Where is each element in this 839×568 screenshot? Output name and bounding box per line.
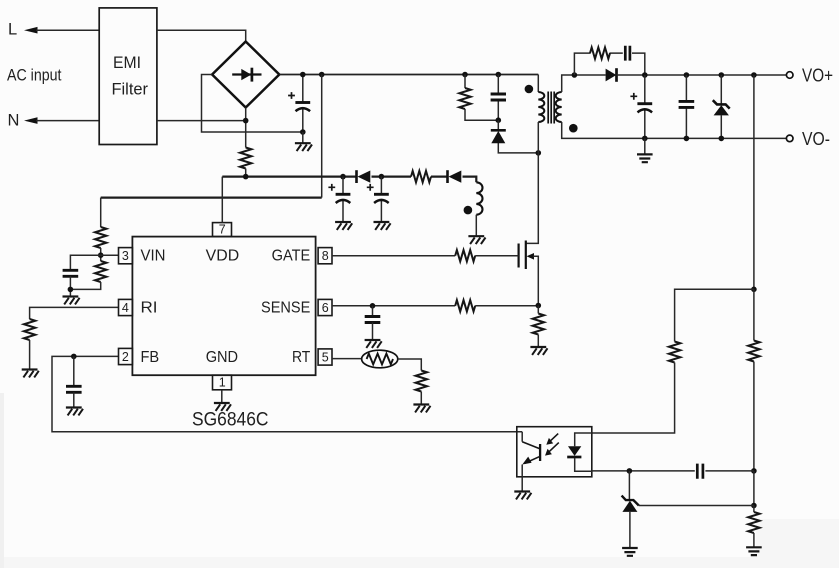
resistor VIN upper (95, 227, 106, 248)
junction divider split (751, 287, 757, 293)
startup resistor (240, 148, 251, 169)
wire primary bottom to MOSFET drain (526, 122, 539, 243)
arrow N (24, 117, 38, 124)
svg-text:AC input: AC input (7, 66, 62, 85)
bridge rectifier (212, 42, 279, 108)
svg-text:7: 7 (219, 223, 226, 237)
wire gate resistor to MOSFET gate (475, 255, 518, 257)
junction drain/clamp (536, 150, 542, 156)
svg-text:VO-: VO- (802, 129, 830, 149)
ground below C2 (335, 222, 352, 230)
VDD rail wire (222, 177, 476, 183)
wire secondary top (562, 75, 606, 92)
junction HV sense branch (319, 72, 325, 78)
junction sense filter cap (370, 303, 376, 309)
output electrolytic stems (644, 75, 646, 138)
resistor opto series (669, 342, 680, 363)
junction snubber RC bottom (496, 117, 502, 123)
snubber resistor stem (464, 75, 466, 89)
primary polarity dot (525, 85, 534, 94)
pin 4 box (119, 299, 133, 315)
aux polarity dot (464, 206, 473, 215)
pin 6 box (318, 299, 332, 315)
junction source/sense (536, 303, 542, 309)
ground below pin 1 (214, 403, 231, 411)
transformer secondary winding (556, 92, 562, 122)
junction ceramic cap top (684, 72, 690, 78)
junction secondary snubber branch (572, 72, 578, 78)
junction snubber R top (462, 72, 468, 78)
zener stems (720, 75, 722, 138)
junction VIN divider ground node (68, 287, 74, 293)
capacitor output ceramic (679, 101, 695, 107)
snubber cap stems (497, 75, 499, 121)
svg-text:3: 3 (122, 249, 129, 263)
svg-text:GATE: GATE (272, 247, 311, 264)
junction ref node (751, 503, 757, 509)
wire startup resistor to VDD rail (245, 169, 247, 177)
earth ground below output cap (637, 154, 653, 162)
thermistor NTC (362, 350, 398, 368)
IC U1 SG6846C body (132, 237, 315, 376)
aux winding (476, 182, 482, 214)
transformer primary winding (538, 92, 544, 122)
svg-text:VDD: VDD (206, 247, 240, 264)
svg-text:SENSE: SENSE (261, 300, 310, 317)
ground below VIN divider (63, 297, 80, 305)
svg-text:L: L (8, 20, 17, 38)
junction snubber C top (496, 72, 502, 78)
TL431 shunt regulator (622, 471, 639, 548)
capacitor VDD C2 (electrolytic) (336, 194, 351, 203)
wire divider lower stems (753, 506, 755, 548)
svg-text:RI: RI (141, 300, 158, 317)
wire EMI to bridge bottom (N side) (157, 120, 246, 122)
capacitor sense filter (365, 317, 381, 323)
wire N to EMI filter (36, 120, 99, 122)
pin 5 box (318, 349, 332, 365)
zener diode output (713, 100, 730, 115)
wire bridge right vertex to HV rail (279, 74, 538, 76)
svg-text:GND: GND (206, 349, 238, 366)
wire pin 5 RT to thermistor (332, 358, 362, 360)
wire pin 2 FB to opto (long) (52, 356, 522, 431)
diode D1 (points left) (357, 170, 371, 183)
wire divider mid (753, 471, 755, 506)
transformer core (548, 92, 554, 124)
resistor snubber (459, 88, 470, 109)
svg-text:SG6846C: SG6846C (192, 410, 269, 431)
pin 1 box (213, 375, 232, 390)
wire bridge bottom to startup resistor (245, 108, 247, 148)
wire RT resistor to ground (420, 392, 422, 405)
resistor RT (416, 371, 427, 392)
output snubber wires (574, 53, 644, 75)
wire sense resistor to ground (537, 306, 539, 348)
junction zener top (719, 72, 725, 78)
capacitor output snubber (625, 46, 630, 61)
resistor RI (24, 319, 35, 340)
wire pin 7 to VDD rail (221, 177, 223, 223)
wire secondary bottom (VO- rail) (562, 122, 787, 138)
ceramic cap stems (685, 75, 687, 138)
svg-text:VIN: VIN (141, 247, 166, 264)
wire sense resistor to source node (475, 305, 538, 307)
capacitor output (electrolytic) (637, 104, 652, 113)
optocoupler LED (567, 433, 592, 471)
wire sense cap to ground (372, 323, 374, 341)
resistor output snubber (590, 47, 610, 58)
feedback divider top wire (753, 75, 755, 289)
wire thermistor to RT resistor (398, 359, 422, 371)
pin 7 box (213, 223, 232, 237)
VDD cap2 stem (380, 177, 382, 222)
diode output rectifier (points right) (606, 68, 645, 82)
wire C1 bottom to ground (302, 132, 304, 143)
ground below aux winding (468, 236, 485, 244)
resistor sense series (455, 300, 475, 311)
diode D2 (points left) (448, 170, 462, 183)
optocoupler photon arrows (545, 434, 559, 456)
clamp diode stems (498, 120, 538, 153)
arrow L (24, 27, 38, 34)
wire divider right branch (753, 289, 755, 340)
resistor VDD series (411, 171, 431, 182)
pin 3 box (119, 248, 133, 264)
svg-text:EMI: EMI (113, 53, 141, 72)
ground below C1 (295, 143, 312, 151)
resistor current sense (533, 314, 544, 335)
ground below RI resistor (22, 370, 39, 378)
wire ref line (639, 505, 754, 507)
svg-text:N: N (8, 112, 20, 130)
svg-text:VO+: VO+ (802, 66, 833, 86)
VO+ terminal (786, 72, 793, 79)
bulk capacitor C1 stems (302, 75, 304, 133)
junction feedback branch top (751, 72, 757, 78)
wire HV sense line down-left to VIN divider (321, 75, 323, 198)
plus sign output cap (630, 93, 637, 100)
wire VIN node to filter cap (70, 255, 100, 270)
resistor divider upper (748, 341, 759, 362)
plus sign C1 (288, 92, 295, 99)
svg-text:2: 2 (122, 350, 129, 364)
plus sign C2 (328, 184, 335, 191)
svg-text:4: 4 (122, 301, 129, 315)
svg-text:Filter: Filter (112, 80, 149, 99)
pin 8 box (318, 248, 332, 264)
junction output cap top (642, 72, 648, 78)
junction C1 bottom (300, 129, 306, 135)
sense cap stem (372, 306, 374, 316)
wire aux to ground (475, 215, 477, 237)
junction C1 top (300, 72, 306, 78)
svg-text:5: 5 (322, 350, 329, 364)
wire pin 8 GATE to gate resistor (332, 255, 455, 257)
optocoupler phototransistor (522, 432, 540, 492)
MOSFET Q1 (519, 241, 539, 306)
capacitor VDD C3 (electrolytic) (374, 194, 389, 203)
wire LED cathode to TL431 (592, 470, 630, 472)
diode clamp (cathode up) (491, 130, 506, 143)
svg-text:RT: RT (292, 349, 311, 366)
wire FB cap to ground (73, 392, 75, 407)
svg-text:6: 6 (322, 301, 329, 315)
capacitor snubber (491, 94, 506, 100)
svg-text:1: 1 (219, 375, 226, 389)
wire pin 1 GND to ground (221, 390, 223, 403)
wire snubber R bottom (465, 109, 498, 120)
resistor divider lower (748, 512, 759, 533)
secondary polarity dot (569, 124, 578, 133)
ground below FB cap (66, 408, 83, 416)
wire VIN lower resistor to bottom (70, 282, 100, 289)
wire comp network (629, 470, 754, 472)
VDD cap1 stem (342, 177, 344, 222)
wire FB cap stem (73, 356, 75, 386)
plus sign C3 (367, 184, 374, 191)
junction VDD cap2 (379, 174, 385, 180)
EMI filter box (99, 8, 157, 145)
wire L to EMI filter (36, 29, 99, 31)
junction VIN node (98, 252, 104, 258)
ground below sense cap (365, 340, 382, 348)
wire divider left branch (675, 289, 754, 341)
VO+ rail (645, 74, 787, 76)
junction output cap bottom (642, 136, 648, 142)
VO- terminal (786, 135, 793, 142)
junction ceramic cap bottom (684, 136, 690, 142)
wire bridge left vertex to negative rail (202, 75, 303, 133)
junction startup/VDD (243, 174, 249, 180)
wire output cap to ground (644, 138, 646, 154)
junction TL431 cathode (627, 468, 633, 474)
optocoupler U2 box (517, 427, 592, 477)
wire pin 6 SENSE to sense resistor (332, 305, 455, 307)
svg-text:8: 8 (322, 249, 329, 263)
capacitor compensation (697, 464, 703, 479)
transformer primary wire (537, 75, 539, 93)
wire RI resistor to ground (29, 340, 31, 370)
junction zener bottom (719, 136, 725, 142)
junction N-line/bridge (243, 118, 249, 124)
wire cap to ground node (69, 276, 71, 295)
ground below C3 (374, 222, 391, 230)
earth ground below TL431 (622, 548, 638, 556)
resistor gate (455, 250, 475, 261)
ground below RT resistor (413, 405, 430, 413)
earth ground below divider (746, 547, 762, 555)
bulk capacitor C1 (electrolytic) (295, 103, 310, 112)
wire divider to cap node (753, 362, 755, 471)
wire VIN node to pin 3 (101, 254, 119, 256)
junction FB cap (71, 354, 77, 360)
pin 2 box (119, 348, 133, 364)
junction comp cap node (751, 468, 757, 474)
junction VDD cap1 (340, 174, 346, 180)
capacitor VIN filter (63, 270, 79, 276)
wire opto series resistor down-left to LED anode (592, 363, 675, 434)
ground below optocoupler (514, 492, 531, 500)
wire to VIN node (100, 248, 102, 261)
wire EMI to bridge top (157, 30, 246, 41)
svg-text:FB: FB (141, 349, 160, 366)
resistor VIN lower (95, 261, 106, 282)
ground below current sense resistor (530, 347, 547, 355)
wire pin 4 RI to resistor (30, 307, 119, 319)
capacitor FB filter (66, 386, 82, 392)
